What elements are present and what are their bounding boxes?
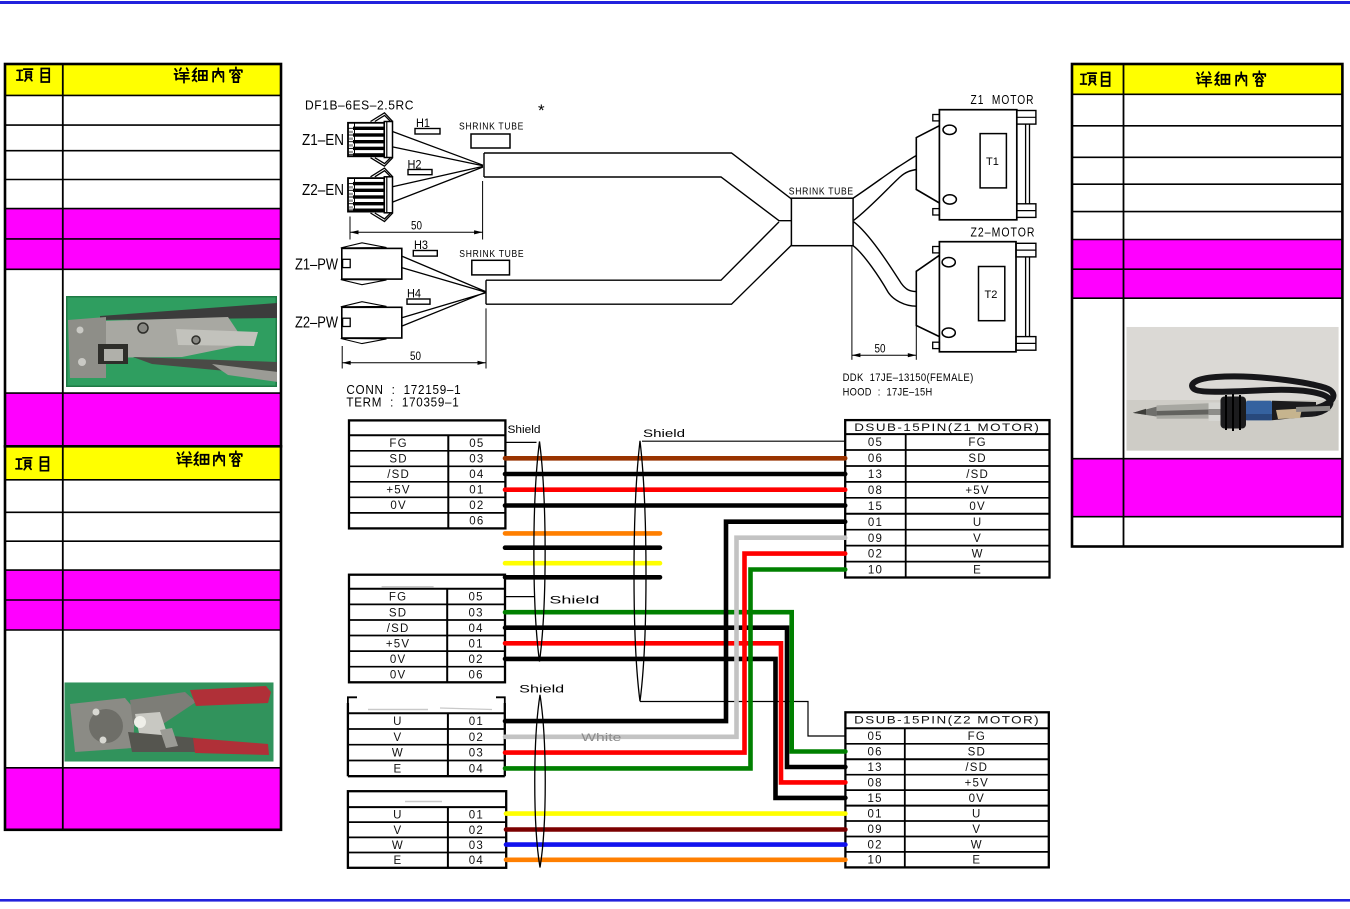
right table 项目/详细内容 [1072, 64, 1342, 547]
shield drain wire FG1 to shield [505, 441, 536, 443]
svg-text:03: 03 [468, 607, 483, 619]
wire SD brown [505, 456, 845, 461]
svg-text:+5V: +5V [965, 485, 989, 497]
connector Z1 motor [916, 110, 1036, 220]
left upper table 项目/详细内容 [5, 64, 281, 446]
svg-text:03: 03 [469, 748, 484, 760]
svg-text:DSUB-15PIN(Z2 MOTOR): DSUB-15PIN(Z2 MOTOR) [854, 715, 1040, 727]
svg-text:SHRINK TUBE: SHRINK TUBE [459, 122, 524, 133]
svg-text:02: 02 [469, 732, 484, 744]
collar [1209, 403, 1221, 422]
svg-text:/SD: /SD [965, 762, 988, 774]
wire +5V2 red [505, 643, 845, 782]
header 详细内容 [174, 68, 189, 83]
svg-text:W: W [392, 748, 404, 760]
svg-text:+5V: +5V [386, 485, 410, 497]
svg-text:09: 09 [867, 824, 882, 836]
svg-text:04: 04 [469, 469, 484, 481]
wires Z2-PW to cable [402, 292, 486, 326]
svg-text:SHRINK TUBE: SHRINK TUBE [459, 249, 524, 260]
svg-text:SHRINK TUBE: SHRINK TUBE [789, 187, 854, 198]
svg-text:V: V [972, 824, 981, 836]
svg-text:W: W [392, 840, 404, 852]
svg-text:08: 08 [868, 485, 883, 497]
svg-text:02: 02 [468, 654, 483, 666]
dimension 50 (EN) [350, 181, 483, 240]
cable assembly drawing [295, 93, 1036, 410]
svg-text:Shield: Shield [643, 428, 685, 440]
svg-text:Z2–MOTOR: Z2–MOTOR [971, 226, 1036, 240]
svg-text:DDK 17JE–13150(FEMALE): DDK 17JE–13150(FEMALE) [843, 372, 974, 384]
svg-text:15: 15 [867, 793, 882, 805]
svg-text:U: U [393, 716, 403, 728]
bottom blue rule [0, 899, 1350, 902]
svg-text:HOOD : 17JE–15H: HOOD : 17JE–15H [843, 387, 933, 399]
svg-text:SD: SD [968, 453, 986, 465]
connector Z1-PW [341, 243, 402, 285]
svg-text:V: V [393, 732, 402, 744]
wires Z2-EN to cable [393, 166, 484, 202]
svg-text:Shield: Shield [549, 595, 599, 607]
svg-text:02: 02 [469, 500, 484, 512]
photo: soldering iron [1126, 327, 1338, 451]
svg-text:0V: 0V [390, 670, 406, 682]
svg-text:0V: 0V [969, 501, 985, 513]
shield loop 3 [535, 695, 546, 868]
svg-text:FG: FG [968, 731, 986, 743]
svg-text:06: 06 [868, 453, 883, 465]
svg-text:02: 02 [867, 839, 882, 851]
svg-text:Shield: Shield [519, 684, 564, 696]
svg-text:05: 05 [469, 438, 484, 450]
svg-text:06: 06 [867, 747, 882, 759]
top blue rule [0, 1, 1350, 4]
shield drain wire FG2 to shield [505, 596, 535, 598]
connector Z2-EN [348, 168, 393, 221]
wire /SD2 black [505, 628, 845, 767]
svg-text:13: 13 [868, 469, 883, 481]
EN cable outline [484, 153, 791, 221]
svg-text:+5V: +5V [386, 638, 410, 650]
connector Z2 motor [916, 242, 1036, 352]
svg-text:0V: 0V [969, 793, 985, 805]
svg-text:50: 50 [411, 221, 422, 233]
spare wire yellow [505, 561, 660, 566]
svg-text:04: 04 [468, 623, 483, 635]
wire E1 green [505, 570, 845, 769]
svg-text:W: W [972, 549, 984, 561]
cable to Z2 motor lower [853, 246, 916, 307]
svg-text:06: 06 [469, 516, 484, 528]
wires Z1-EN to cable [393, 132, 484, 166]
svg-text:Z2–EN: Z2–EN [302, 182, 344, 199]
pin table Z1-EN side (top left) [349, 420, 505, 528]
svg-text:03: 03 [469, 454, 484, 466]
photo: crimp tool on green mat [66, 296, 278, 387]
svg-text:04: 04 [469, 764, 484, 776]
dimension 50 (right) [852, 246, 916, 360]
dimension 50 (PW) [342, 308, 486, 368]
svg-text:DF1B–6ES–2.5RC: DF1B–6ES–2.5RC [305, 99, 414, 113]
svg-text:10: 10 [867, 855, 882, 867]
svg-text:FG: FG [389, 592, 407, 604]
wire V1 white/gray [505, 538, 845, 737]
svg-text:04: 04 [469, 855, 484, 867]
svg-text:DSUB-15PIN(Z1 MOTOR): DSUB-15PIN(Z1 MOTOR) [854, 422, 1040, 434]
svg-text:E: E [973, 565, 982, 577]
svg-text:01: 01 [469, 485, 484, 497]
svg-text:*: * [538, 101, 545, 120]
svg-text:W: W [971, 839, 983, 851]
cord [1192, 376, 1333, 414]
svg-text:E: E [972, 855, 981, 867]
photo: red-handle crimp tool on green mat [65, 682, 274, 761]
wire U1 black [505, 522, 845, 721]
wire /SD black [505, 472, 845, 477]
spare wire orange [505, 531, 660, 536]
shield drain wire shield2 to Z2 pin05 [640, 702, 845, 737]
header 项目 [17, 69, 33, 81]
svg-text:05: 05 [468, 592, 483, 604]
svg-text:09: 09 [868, 533, 883, 545]
svg-text:02: 02 [868, 549, 883, 561]
svg-text:05: 05 [867, 731, 882, 743]
svg-text:U: U [393, 810, 403, 822]
svg-text:50: 50 [410, 351, 421, 363]
svg-text:10: 10 [868, 565, 883, 577]
wire +5V red [505, 487, 845, 492]
svg-text:/SD: /SD [966, 469, 989, 481]
svg-text:TERM : 170359–1: TERM : 170359–1 [346, 395, 459, 410]
cable to Z2 motor upper [854, 222, 917, 292]
svg-text:SD: SD [389, 607, 407, 619]
svg-text:E: E [393, 764, 402, 776]
svg-text:White: White [581, 732, 621, 744]
spare wire black [505, 545, 660, 550]
svg-text:T2: T2 [985, 289, 998, 301]
pin table Z2-EN side [349, 575, 505, 683]
svg-text:T1: T1 [986, 156, 999, 168]
svg-text:06: 06 [468, 670, 483, 682]
shield loop 2 [634, 441, 646, 702]
table DSUB-15PIN Z2 MOTOR [845, 712, 1048, 867]
svg-text:FG: FG [389, 438, 407, 450]
connector Z1-EN [348, 113, 393, 166]
svg-text:SD: SD [968, 747, 986, 759]
svg-text:E: E [393, 855, 402, 867]
svg-text:0V: 0V [390, 654, 406, 666]
svg-text:03: 03 [469, 840, 484, 852]
svg-text:01: 01 [868, 517, 883, 529]
svg-text:SD: SD [389, 454, 407, 466]
svg-text:0V: 0V [390, 500, 406, 512]
shield loop 1 [534, 442, 545, 662]
svg-text:01: 01 [469, 716, 484, 728]
barrel [1157, 403, 1209, 419]
svg-text:Z2–PW: Z2–PW [295, 315, 338, 332]
handle [1272, 401, 1316, 421]
cable to Z1 motor lower [854, 170, 917, 221]
tip [1133, 407, 1157, 417]
wire E2 orange [506, 857, 845, 862]
svg-text:Z1–PW: Z1–PW [295, 256, 338, 273]
svg-text:Z1–EN: Z1–EN [302, 132, 344, 149]
svg-text:Shield: Shield [508, 424, 541, 436]
svg-text:V: V [973, 533, 982, 545]
svg-text:/SD: /SD [387, 623, 410, 635]
svg-text:08: 08 [867, 778, 882, 790]
table DSUB-15PIN Z1 MOTOR [845, 420, 1049, 577]
shield drain wire shield2 to Z1 pin05 [642, 440, 845, 442]
wire 0V2 black [505, 659, 845, 798]
svg-text:01: 01 [469, 810, 484, 822]
svg-text:U: U [972, 808, 982, 820]
wire W1 red [505, 554, 845, 753]
wire W2 blue [506, 842, 845, 847]
svg-text:50: 50 [875, 344, 886, 356]
svg-text:01: 01 [468, 638, 483, 650]
svg-text:01: 01 [867, 808, 882, 820]
wire 0V black [505, 503, 845, 508]
svg-text:Z1 MOTOR: Z1 MOTOR [971, 93, 1035, 107]
svg-text:V: V [393, 825, 402, 837]
left lower table 项目/详细内容 [5, 446, 281, 830]
wire U2 yellow [506, 811, 845, 816]
spare wire black [505, 575, 660, 580]
ribbed black section [1221, 397, 1247, 429]
svg-text:+5V: +5V [965, 778, 989, 790]
svg-text:05: 05 [868, 437, 883, 449]
blue grip [1246, 401, 1272, 421]
connector Z2-PW [341, 302, 402, 344]
cable to Z1 motor upper [853, 156, 916, 199]
svg-text:/SD: /SD [387, 469, 410, 481]
wires Z1-PW to cable [402, 256, 486, 292]
wire V2 dark red [506, 827, 845, 832]
motor lead table 2 (U/V/W/E) [348, 791, 506, 868]
svg-text:15: 15 [868, 501, 883, 513]
svg-text:02: 02 [469, 825, 484, 837]
PW cable outline [486, 222, 791, 304]
svg-text:FG: FG [968, 437, 986, 449]
svg-text:13: 13 [867, 762, 882, 774]
motor lead table 1 (U/V/W/E) [348, 697, 505, 776]
svg-text:U: U [973, 517, 983, 529]
wire SD2 green [505, 612, 845, 751]
